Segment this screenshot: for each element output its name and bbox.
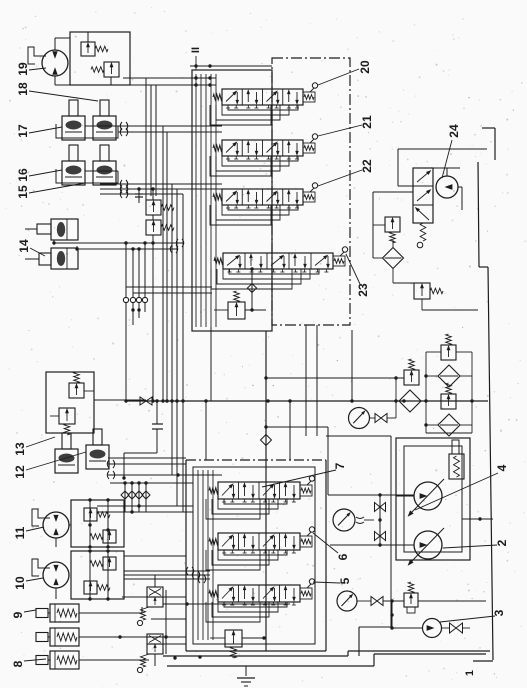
svg-text:5: 5 [338,577,352,584]
svg-text:16: 16 [16,168,30,182]
svg-text:10: 10 [13,576,27,590]
svg-text:II: II [190,47,202,53]
svg-text:6: 6 [336,553,350,560]
svg-text:23: 23 [356,283,370,297]
svg-text:15: 15 [16,185,30,199]
svg-text:20: 20 [358,60,372,74]
svg-text:24: 24 [447,124,461,138]
svg-text:4: 4 [495,464,509,471]
svg-text:22: 22 [360,159,374,173]
svg-text:17: 17 [16,124,30,138]
svg-text:1: 1 [464,670,476,676]
svg-text:3: 3 [492,609,506,616]
svg-text:7: 7 [333,462,347,469]
svg-text:21: 21 [360,115,374,129]
svg-text:14: 14 [17,239,31,253]
svg-text:11: 11 [13,526,27,539]
svg-text:19: 19 [16,62,30,76]
svg-text:8: 8 [11,660,25,667]
svg-text:9: 9 [11,611,25,618]
svg-text:18: 18 [16,82,30,96]
svg-text:2: 2 [495,539,509,546]
svg-text:12: 12 [13,465,27,479]
svg-text:13: 13 [13,442,27,456]
